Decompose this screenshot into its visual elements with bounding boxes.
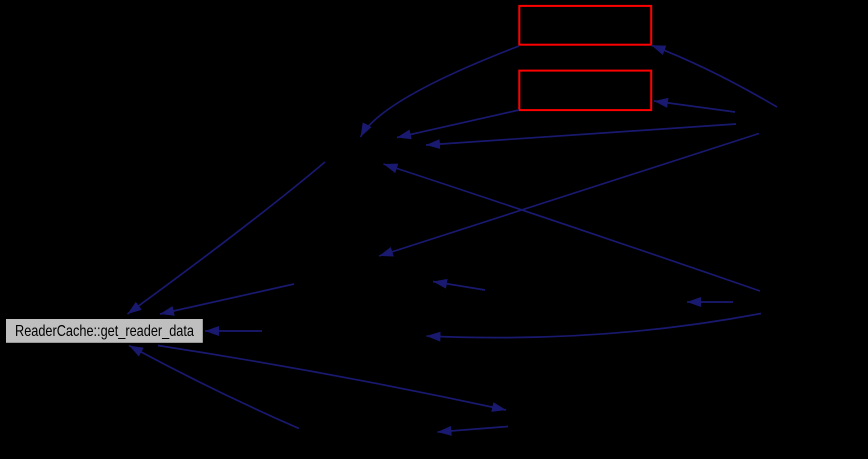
edge E7: lower-right node R to hub node [384,164,761,291]
edge E11: gray box to node W [158,346,506,411]
edge E4: red box2 to hub node [397,110,519,138]
svg-text:ReaderCache::get_reader_data: ReaderCache::get_reader_data [15,323,194,340]
gray current-node box [6,319,203,343]
edge E8: hub node to gray box [128,162,326,314]
red node box1 (top) [519,6,651,45]
edge E12: node W to node Z [438,427,509,433]
edge EV: node V to node X [433,282,485,291]
edge E10: node Y to gray box [205,330,262,332]
edge E9: node X to gray box [160,284,294,314]
edge E2: right node Q to red box2 [654,101,735,112]
edge E5: right node Q to hub node [426,124,736,145]
edge EU: node R to node V [687,301,733,303]
edge E6: right node Q to node X [379,134,759,257]
edge E3: red box1 to hub node (curved) [361,46,520,137]
red node box2 [519,71,651,111]
edge EY: node R to node Y (sagging curve) [427,314,762,338]
edge EB: node Z to gray box [129,346,299,429]
edge E1: right node Q to red box1 [652,45,778,107]
